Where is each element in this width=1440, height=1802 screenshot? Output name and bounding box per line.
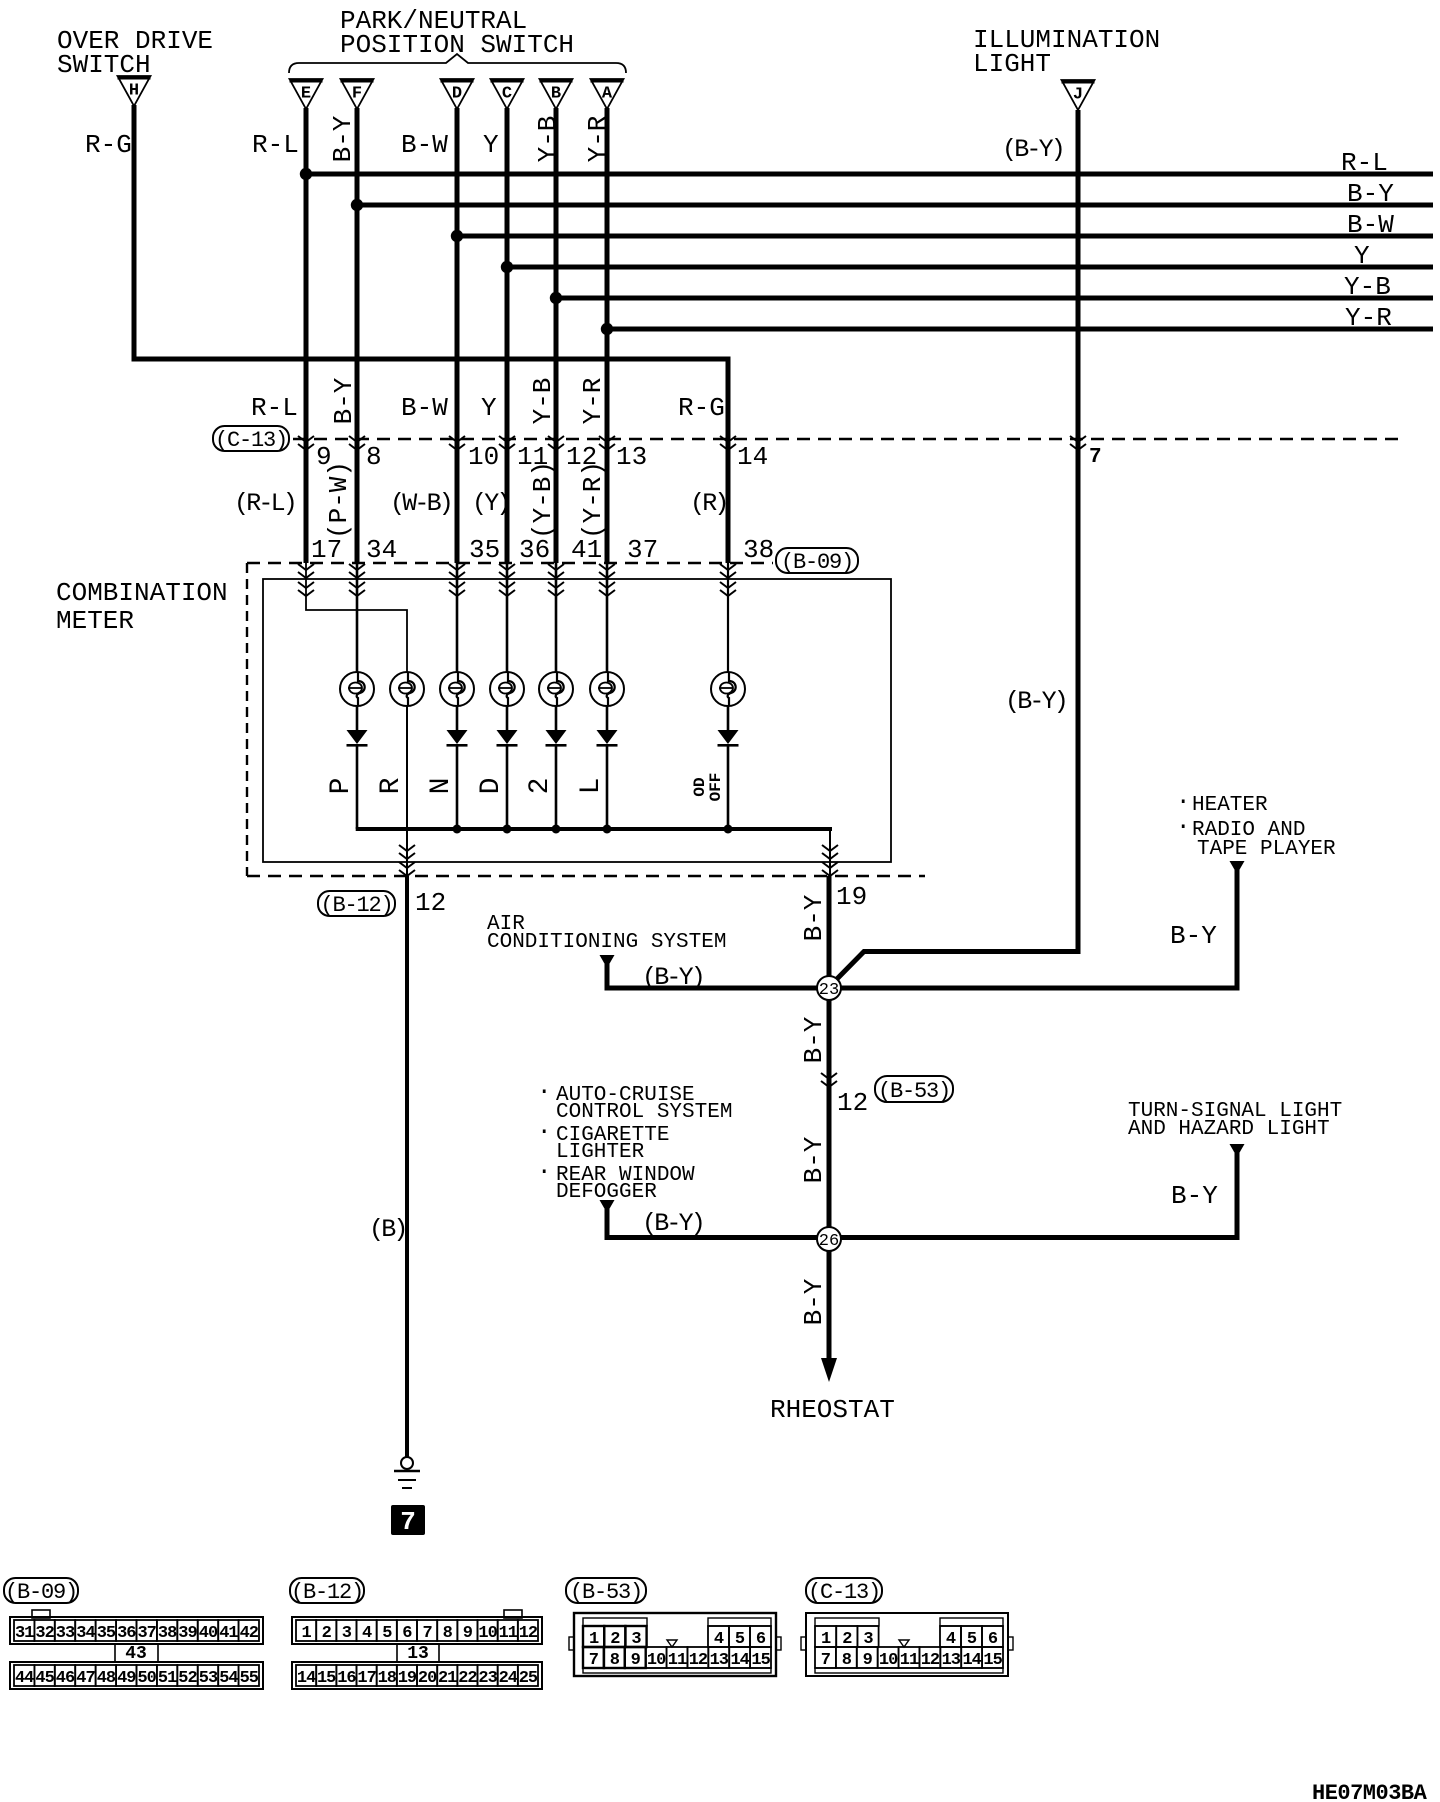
svg-text:36: 36 — [117, 1624, 136, 1643]
svg-text:(B-12): (B-12) — [291, 1580, 363, 1605]
wire J corner to junction 23 — [830, 952, 1081, 987]
svg-text:14: 14 — [737, 442, 768, 472]
diode under lamp L — [597, 730, 618, 747]
svg-text:35: 35 — [97, 1624, 116, 1643]
svg-text:45: 45 — [35, 1669, 54, 1688]
svg-text:19: 19 — [398, 1669, 417, 1688]
svg-text:HE07M03BA: HE07M03BA — [1312, 1781, 1428, 1802]
svg-text:CONDITIONING SYSTEM: CONDITIONING SYSTEM — [487, 931, 726, 954]
connector B-09 dashed line — [247, 562, 773, 564]
connector E — [290, 79, 323, 109]
arrow into C-13 at x=728 — [720, 436, 736, 450]
svg-text:8: 8 — [443, 1624, 453, 1643]
svg-text:L: L — [576, 778, 607, 795]
wire H overdrive R-G horizontal — [134, 357, 731, 362]
wire diode to bus at x=556 — [555, 746, 558, 829]
connector table B-53 — [569, 1613, 781, 1676]
wire lamp P to diode — [356, 705, 359, 730]
svg-text:55: 55 — [240, 1669, 259, 1688]
svg-text:34: 34 — [366, 535, 397, 565]
diode under lamp D — [497, 730, 518, 747]
junction dot bus x=728 — [724, 825, 733, 834]
svg-text:Y: Y — [481, 393, 497, 423]
svg-text:12: 12 — [519, 1624, 538, 1643]
svg-text:METER: METER — [56, 606, 134, 636]
diode under lamp N — [447, 730, 468, 747]
svg-text:(R-L): (R-L) — [234, 489, 295, 518]
arrow into meter box at x=457 — [449, 582, 465, 596]
svg-text:N: N — [426, 778, 457, 795]
arrow into meter box at x=357 — [349, 582, 365, 596]
wire air conditioning to junction 23 and heater branch — [605, 986, 1240, 991]
wire heater branch vertical — [1235, 869, 1240, 988]
wire bus exit to pin 19 — [829, 829, 831, 876]
indicator lamp D — [490, 672, 524, 706]
wire lamp N to diode — [456, 705, 459, 730]
svg-text:25: 25 — [519, 1669, 538, 1688]
svg-text:23: 23 — [478, 1669, 497, 1688]
wire diode to bus at x=607 — [606, 746, 609, 829]
diode under lamp 2 — [546, 730, 567, 747]
svg-text:52: 52 — [178, 1669, 197, 1688]
svg-text:9: 9 — [463, 1624, 473, 1643]
diode under lamp OD — [718, 730, 739, 747]
svg-text:Y: Y — [1354, 241, 1370, 271]
svg-text:·: · — [537, 1079, 551, 1106]
connector D — [441, 79, 474, 109]
connector C — [491, 79, 524, 109]
svg-text:22: 22 — [458, 1669, 477, 1688]
diode under lamp P — [347, 730, 368, 747]
svg-text:LIGHT: LIGHT — [973, 49, 1051, 79]
svg-text:R-G: R-G — [85, 130, 132, 160]
svg-text:Y-B: Y-B — [1344, 272, 1391, 302]
junction dot Y bus — [501, 261, 513, 273]
svg-text:(Y-R): (Y-R) — [578, 461, 608, 539]
svg-text:33: 33 — [56, 1624, 75, 1643]
indicator lamp OD — [711, 672, 745, 706]
svg-text:5: 5 — [382, 1624, 392, 1643]
connector table C-13 label — [806, 1578, 882, 1605]
arrow into meter box at x=728 — [720, 582, 736, 596]
arrow into C-13 at x=457 — [449, 436, 465, 450]
wire defogger stub — [605, 1209, 610, 1240]
svg-text:(C-13): (C-13) — [808, 1580, 880, 1605]
arrow into C-13 at x=607 — [599, 436, 615, 450]
svg-text:·: · — [537, 1119, 551, 1146]
arrow into meter box at x=306 — [298, 582, 314, 596]
brace over park/neutral switch connectors — [289, 54, 626, 73]
svg-text:COMBINATION: COMBINATION — [56, 578, 228, 608]
svg-text:B-W: B-W — [1347, 210, 1394, 240]
wire F B-Y vertical — [355, 108, 360, 563]
wire Y horizontal bus to right edge — [507, 265, 1433, 270]
wire lamp D to diode — [506, 705, 509, 730]
svg-text:14: 14 — [962, 1651, 981, 1670]
svg-text:9: 9 — [631, 1651, 641, 1670]
ground reference number 7 (black square) — [391, 1505, 425, 1537]
connector F — [341, 79, 374, 109]
junction dot Y-R bus — [601, 323, 613, 335]
wire pin 34 to P lamp column — [356, 563, 359, 673]
wire pin 36 to D lamp column — [506, 563, 509, 673]
wire B-W horizontal bus to right edge — [457, 234, 1433, 239]
arrow B-53 crossing — [821, 1073, 837, 1087]
svg-text:38: 38 — [743, 535, 774, 565]
indicator lamp L — [590, 672, 624, 706]
svg-text:(B-12): (B-12) — [320, 893, 392, 918]
wire pin 41 to 2 lamp column — [555, 563, 558, 673]
junction dot bus x=507 — [503, 825, 512, 834]
svg-text:OFF: OFF — [707, 773, 725, 802]
arrow to heater / radio — [1230, 861, 1245, 874]
svg-text:B-Y: B-Y — [1170, 921, 1217, 951]
svg-text:7: 7 — [422, 1624, 432, 1643]
svg-text:B-Y: B-Y — [1347, 179, 1394, 209]
svg-text:37: 37 — [627, 535, 658, 565]
connector table B-09 — [10, 1610, 263, 1689]
svg-text:(Y-B): (Y-B) — [528, 461, 558, 539]
arrow into B-09 at x=507 — [499, 564, 515, 578]
svg-text:6: 6 — [402, 1624, 412, 1643]
svg-text:54: 54 — [219, 1669, 238, 1688]
arrow into meter box at x=507 — [499, 582, 515, 596]
svg-text:B-Y: B-Y — [1171, 1181, 1218, 1211]
svg-text:B-Y: B-Y — [328, 115, 358, 162]
svg-text:AND HAZARD LIGHT: AND HAZARD LIGHT — [1128, 1118, 1330, 1141]
svg-text:B: B — [551, 85, 561, 104]
connector C-13 dashed line — [293, 438, 1398, 440]
wire J illumination (B-Y) vertical — [1076, 110, 1081, 954]
svg-text:10: 10 — [468, 442, 499, 472]
svg-text:P: P — [326, 778, 357, 795]
svg-text:50: 50 — [137, 1669, 156, 1688]
wire diode to bus at x=357 — [356, 746, 359, 829]
wire pin 37 to L lamp column — [606, 563, 609, 673]
svg-text:4: 4 — [362, 1624, 372, 1643]
svg-text:34: 34 — [76, 1624, 95, 1643]
arrow into B-09 at x=306 — [298, 564, 314, 578]
wire B-Y horizontal bus to right edge — [357, 203, 1433, 208]
wire diode to bus at x=728 — [727, 746, 730, 829]
wire lamp OD to diode — [727, 705, 730, 730]
wire turn-signal branch vertical — [1235, 1153, 1240, 1238]
svg-text:R-L: R-L — [252, 130, 299, 160]
svg-text:C: C — [502, 85, 512, 104]
connector C-13 label (stadium) — [213, 426, 289, 453]
wire C Y vertical — [505, 108, 510, 563]
arrow out of meter box at x=830 — [822, 845, 838, 859]
wire diode to bus at x=507 — [506, 746, 509, 829]
svg-text:10: 10 — [478, 1624, 497, 1643]
wire lamp 2 to diode — [555, 705, 558, 730]
arrow into B-09 at x=607 — [599, 564, 615, 578]
svg-text:R-G: R-G — [678, 393, 725, 423]
svg-text:B-Y: B-Y — [799, 1278, 829, 1325]
svg-text:17: 17 — [311, 535, 342, 565]
svg-text:32: 32 — [35, 1624, 54, 1643]
wire E R-L vertical — [304, 108, 309, 563]
ground symbol — [394, 1457, 420, 1488]
svg-text:14: 14 — [297, 1669, 316, 1688]
svg-text:40: 40 — [199, 1624, 218, 1643]
svg-text:46: 46 — [56, 1669, 75, 1688]
lamp common bus wire — [356, 827, 832, 831]
svg-text:8: 8 — [366, 442, 382, 472]
svg-text:RHEOSTAT: RHEOSTAT — [770, 1395, 895, 1425]
connector B-09 label (stadium) — [776, 548, 858, 575]
svg-text:POSITION SWITCH: POSITION SWITCH — [340, 30, 574, 60]
wire air conditioning stub — [605, 964, 610, 991]
wire B Y-B vertical — [554, 108, 559, 563]
svg-text:44: 44 — [15, 1669, 34, 1688]
svg-text:47: 47 — [76, 1669, 95, 1688]
arrow into C-13 at x=507 — [499, 436, 515, 450]
wire Y-R horizontal bus to right edge — [607, 327, 1433, 332]
svg-text:R-L: R-L — [251, 393, 298, 423]
junction dot R-L bus — [300, 168, 312, 180]
svg-text:12: 12 — [921, 1651, 940, 1670]
svg-text:(B-Y): (B-Y) — [642, 1209, 703, 1238]
svg-text:8: 8 — [842, 1651, 852, 1670]
svg-text:R: R — [376, 777, 407, 794]
svg-text:9: 9 — [863, 1651, 873, 1670]
arrow into C-13 at x=357 — [349, 436, 365, 450]
svg-text:23: 23 — [819, 981, 839, 1000]
wire R-L horizontal bus to right edge — [306, 172, 1433, 177]
svg-text:26: 26 — [819, 1232, 839, 1251]
svg-text:2: 2 — [525, 778, 556, 795]
connector table B-12 label — [290, 1578, 364, 1605]
svg-text:8: 8 — [610, 1651, 620, 1670]
connector table B-12 — [292, 1610, 542, 1689]
junction dot B-Y bus — [351, 199, 363, 211]
svg-text:B-Y: B-Y — [799, 1136, 829, 1183]
connector B — [540, 79, 573, 109]
svg-text:11: 11 — [499, 1624, 518, 1643]
indicator lamp 2 — [539, 672, 573, 706]
arrow into meter box at x=556 — [548, 582, 564, 596]
svg-text:14: 14 — [730, 1651, 749, 1670]
svg-text:J: J — [1073, 86, 1083, 105]
svg-text:(B-09): (B-09) — [5, 1580, 77, 1605]
connector B-12 dashed line — [247, 875, 925, 877]
svg-text:7: 7 — [400, 1507, 416, 1537]
svg-text:10: 10 — [647, 1651, 666, 1670]
wire defogger to junction 26 and turn-signal branch — [605, 1235, 1240, 1240]
svg-text:13: 13 — [942, 1651, 961, 1670]
svg-text:2: 2 — [322, 1624, 332, 1643]
arrow into C-13 at x=306 — [298, 436, 314, 450]
svg-text:(W-B): (W-B) — [390, 489, 451, 518]
wire pin 17 to R lamp (bend) — [306, 563, 407, 673]
svg-text:·: · — [537, 1159, 551, 1186]
wire R lamp to B-12 pin 12 (through box) — [406, 705, 408, 876]
svg-text:38: 38 — [158, 1624, 177, 1643]
svg-text:Y-R: Y-R — [578, 378, 608, 425]
arrow into C-13 at x=1078 — [1070, 436, 1086, 450]
svg-text:21: 21 — [438, 1669, 457, 1688]
svg-text:B-W: B-W — [401, 393, 448, 423]
combination meter inner box — [263, 579, 891, 862]
wire B-Y trunk pin 19 down to rheostat — [827, 876, 832, 1362]
junction 23 circle — [817, 976, 841, 1000]
junction dot bus x=607 — [603, 825, 612, 834]
wire diode to bus at x=457 — [456, 746, 459, 829]
wire (B) from pin 12 to ground — [405, 876, 409, 1457]
wire pin 38 to OD lamp column — [727, 563, 729, 673]
wire D B-W vertical — [455, 108, 460, 563]
junction dot bus x=457 — [453, 825, 462, 834]
svg-text:(B-53): (B-53) — [878, 1079, 950, 1104]
svg-text:48: 48 — [97, 1669, 116, 1688]
svg-text:B-W: B-W — [401, 130, 448, 160]
svg-text:Y-R: Y-R — [1345, 303, 1392, 333]
indicator lamp N — [440, 672, 474, 706]
arrow to air conditioning system — [600, 955, 615, 968]
connector B-12 label (stadium) — [318, 891, 395, 918]
svg-text:(B-53): (B-53) — [570, 1580, 642, 1605]
svg-text:B-Y: B-Y — [799, 894, 829, 941]
wire pin 35 to N lamp column — [456, 563, 459, 673]
junction dot Y-B bus — [550, 292, 562, 304]
svg-text:Y-B: Y-B — [528, 378, 558, 425]
svg-text:15: 15 — [983, 1651, 1002, 1670]
svg-text:·: · — [1176, 814, 1190, 841]
arrow to rheostat — [821, 1358, 837, 1382]
svg-text:41: 41 — [571, 535, 602, 565]
svg-text:17: 17 — [357, 1669, 376, 1688]
svg-text:20: 20 — [418, 1669, 437, 1688]
svg-text:18: 18 — [378, 1669, 397, 1688]
svg-text:F: F — [352, 85, 362, 104]
svg-text:35: 35 — [469, 535, 500, 565]
svg-text:D: D — [476, 778, 507, 795]
svg-text:31: 31 — [15, 1624, 34, 1643]
svg-text:11: 11 — [900, 1651, 919, 1670]
svg-text:B-Y: B-Y — [799, 1016, 829, 1063]
wire Y-B horizontal bus to right edge — [556, 296, 1433, 301]
svg-text:(B-09): (B-09) — [781, 550, 853, 575]
svg-text:42: 42 — [240, 1624, 259, 1643]
svg-text:24: 24 — [499, 1669, 518, 1688]
svg-text:Y: Y — [483, 130, 499, 160]
svg-text:A: A — [602, 85, 613, 104]
wire R-G vertical to pin 14 — [726, 359, 731, 563]
wire lamp L to diode — [606, 705, 609, 730]
svg-text:B-Y: B-Y — [329, 377, 359, 424]
junction 26 circle — [817, 1227, 841, 1251]
svg-text:12: 12 — [837, 1088, 868, 1118]
svg-text:15: 15 — [751, 1651, 770, 1670]
svg-text:E: E — [301, 85, 311, 104]
svg-text:D: D — [452, 85, 462, 104]
arrow to auto-cruise/cigarette/defogger — [600, 1200, 615, 1213]
svg-text:15: 15 — [317, 1669, 336, 1688]
indicator lamp P — [340, 672, 374, 706]
connector table C-13 — [801, 1613, 1013, 1676]
connector table B-53 label — [566, 1578, 646, 1605]
arrow into meter box at x=607 — [599, 582, 615, 596]
arrow out of meter box at x=407 — [399, 845, 415, 859]
arrow to turn-signal light — [1230, 1144, 1245, 1157]
svg-text:(R): (R) — [690, 489, 727, 518]
junction dot bus x=556 — [552, 825, 561, 834]
svg-text:(B-Y): (B-Y) — [1002, 135, 1063, 164]
svg-text:16: 16 — [337, 1669, 356, 1688]
connector B-53 label (stadium) — [875, 1076, 953, 1104]
svg-text:7: 7 — [821, 1651, 831, 1670]
svg-text:10: 10 — [879, 1651, 898, 1670]
svg-text:13: 13 — [616, 442, 647, 472]
svg-text:12: 12 — [689, 1651, 708, 1670]
svg-text:1: 1 — [301, 1624, 311, 1643]
svg-text:39: 39 — [178, 1624, 197, 1643]
svg-text:53: 53 — [199, 1669, 218, 1688]
combination meter dashed outline — [246, 563, 248, 876]
svg-text:36: 36 — [519, 535, 550, 565]
svg-text:13: 13 — [710, 1651, 729, 1670]
svg-text:7: 7 — [589, 1651, 599, 1670]
svg-text:11: 11 — [668, 1651, 687, 1670]
connector J (illumination light) — [1062, 80, 1095, 110]
svg-text:(B): (B) — [369, 1215, 406, 1244]
svg-text:(C-13): (C-13) — [215, 428, 287, 453]
svg-text:(B-Y): (B-Y) — [1005, 687, 1066, 716]
svg-text:TAPE PLAYER: TAPE PLAYER — [1197, 838, 1336, 861]
arrow into C-13 at x=556 — [548, 436, 564, 450]
arrow into B-09 at x=457 — [449, 564, 465, 578]
svg-text:HEATER: HEATER — [1192, 794, 1268, 817]
svg-text:12: 12 — [415, 888, 446, 918]
wire A Y-R vertical — [605, 108, 610, 563]
indicator lamp R — [390, 672, 424, 706]
svg-text:(Y): (Y) — [472, 489, 509, 518]
svg-text:19: 19 — [836, 882, 867, 912]
svg-text:LIGHTER: LIGHTER — [556, 1141, 645, 1164]
svg-text:3: 3 — [342, 1624, 352, 1643]
svg-text:37: 37 — [137, 1624, 156, 1643]
svg-text:H: H — [129, 82, 139, 101]
arrow into B-09 at x=728 — [720, 564, 736, 578]
svg-text:49: 49 — [117, 1669, 136, 1688]
connector table B-09 label — [4, 1578, 78, 1605]
svg-text:51: 51 — [158, 1669, 177, 1688]
svg-text:CONTROL SYSTEM: CONTROL SYSTEM — [556, 1101, 732, 1124]
junction dot B-W bus — [451, 230, 463, 242]
connector A — [591, 79, 624, 109]
arrow into B-09 at x=357 — [349, 564, 365, 578]
svg-text:7: 7 — [1089, 446, 1102, 469]
wire H overdrive R-G vertical — [132, 105, 137, 362]
svg-text:R-L: R-L — [1341, 148, 1388, 178]
svg-text:·: · — [1176, 789, 1190, 816]
svg-text:(P-W): (P-W) — [324, 461, 354, 539]
arrow into B-09 at x=556 — [548, 564, 564, 578]
svg-text:41: 41 — [219, 1624, 238, 1643]
connector H (over drive switch) — [118, 76, 151, 106]
